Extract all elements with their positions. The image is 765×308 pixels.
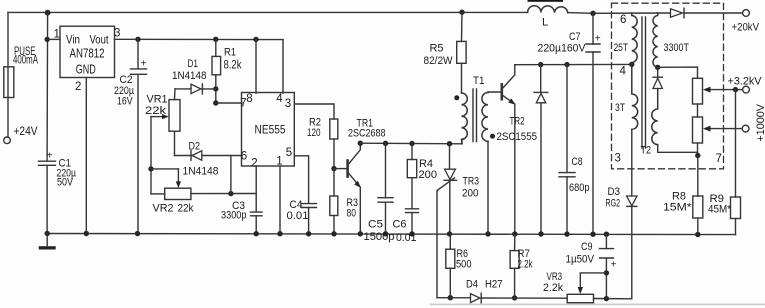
resistor R9 45M: [731, 197, 741, 219]
svg-text:VR2: VR2: [153, 203, 174, 215]
resistor R3 80: [333, 169, 335, 196]
node Vin branch: [45, 37, 50, 42]
svg-text:C6: C6: [393, 219, 407, 231]
resistor divider upper: [693, 78, 703, 104]
winding T1 secondary: [482, 93, 488, 142]
svg-text:+3.2kV: +3.2kV: [728, 76, 763, 88]
wire TR3 gate: [437, 178, 455, 298]
wire pin 2 stub: [255, 166, 257, 212]
node wiper junction: [148, 166, 153, 171]
resistor R7 2.2k: [514, 234, 516, 251]
svg-text:+: +: [595, 34, 601, 45]
svg-text:+24V: +24V: [14, 126, 38, 138]
wire T1 secondary top to TR2 base: [488, 91, 501, 94]
svg-text:2: 2: [75, 81, 81, 93]
svg-text:1N4148: 1N4148: [172, 70, 207, 82]
svg-text:5: 5: [286, 147, 292, 159]
node bus C9: [604, 232, 609, 237]
svg-text:8.2k: 8.2k: [224, 60, 242, 72]
transistor TR1 2SC2688: [334, 168, 347, 170]
node phase dot T1 primary: [454, 95, 459, 100]
wire tap arrow +3.2kV: [707, 89, 736, 91]
svg-text:+20kV: +20kV: [732, 22, 760, 34]
svg-text:45M*: 45M*: [708, 204, 732, 216]
diode D2 1N4148: [175, 155, 193, 157]
svg-text:L: L: [542, 17, 548, 29]
svg-text:8: 8: [246, 93, 252, 105]
svg-text:82/2W: 82/2W: [424, 55, 453, 67]
node VR3 right / C9 bottom: [604, 296, 609, 301]
svg-text:3: 3: [615, 153, 621, 165]
node bus TR2 emitter: [512, 231, 517, 236]
wire C2 column: [137, 39, 139, 233]
svg-text:Vout: Vout: [90, 35, 110, 47]
node R7 bottom: [512, 295, 517, 300]
wire feedback bottom left: [437, 297, 470, 299]
svg-text:C5: C5: [368, 219, 383, 231]
svg-text:D2: D2: [189, 141, 201, 153]
node terminal +3.2kV: [743, 86, 750, 93]
wire pin 4 stub: [282, 40, 284, 94]
svg-text:80: 80: [347, 208, 357, 220]
transformer T2 primary 25T: [632, 13, 637, 64]
winding T1 primary: [462, 93, 468, 144]
svg-text:6: 6: [620, 14, 626, 26]
wire pin 1 stub: [279, 166, 281, 234]
resistor R6 500: [449, 234, 451, 249]
svg-text:T2: T2: [641, 145, 652, 157]
wire T2 pin 3 down to D3: [631, 129, 633, 196]
node terminal +1000V: [742, 125, 749, 132]
svg-text:7: 7: [716, 153, 722, 165]
svg-text:TR2: TR2: [510, 116, 525, 128]
diode D4 H27: [471, 294, 481, 303]
diode HV internal: [657, 67, 659, 77]
resistor R8 15M: [693, 196, 703, 218]
dashed box flyback unit: [612, 3, 724, 169]
node R1 branch: [213, 37, 218, 42]
wire pin3 column to feedback: [631, 206, 633, 298]
ground symbol: [46, 234, 48, 246]
resistor R1: [215, 39, 217, 56]
node tap junction: [733, 87, 738, 92]
svg-text:TR3: TR3: [463, 176, 480, 188]
capacitor C7 220u160V: [592, 13, 594, 44]
svg-text:3300T: 3300T: [664, 42, 690, 54]
svg-text:R5: R5: [430, 43, 444, 55]
node phase dot T1 secondary: [490, 134, 495, 139]
svg-text:1µ50V: 1µ50V: [566, 254, 595, 266]
node pin7: [213, 100, 218, 105]
svg-text:H27: H27: [485, 279, 503, 291]
node junction R5 branch: [459, 10, 464, 15]
wire Vin: [47, 38, 60, 40]
svg-text:15M*: 15M*: [663, 202, 692, 214]
wire wiper to VR2 wiper: [151, 168, 178, 170]
node T2 pin 4: [629, 62, 634, 67]
svg-text:0.01: 0.01: [287, 210, 309, 222]
svg-text:1: 1: [54, 29, 60, 41]
svg-text:22k: 22k: [178, 203, 194, 215]
wire pin 5: [295, 156, 309, 203]
node pin8 branch: [253, 37, 258, 42]
wire pin 4 feed: [515, 63, 632, 65]
node bus C7: [590, 232, 595, 237]
resistor R4 200: [411, 144, 413, 160]
wire collector rail to T1: [360, 140, 462, 144]
node bus damper diode: [538, 231, 543, 236]
svg-text:C7: C7: [569, 31, 581, 43]
svg-text:22k: 22k: [145, 105, 166, 117]
capacitor C8 680p: [566, 65, 568, 173]
node C2 branch: [135, 37, 140, 42]
wire secondary tap to divider top: [658, 67, 698, 78]
transformer T2 secondary 3300T lower: [652, 89, 658, 145]
wire pin6 tee column: [230, 156, 232, 194]
node bus GND pin: [84, 231, 89, 236]
transformer T2 secondary 3300T upper: [653, 13, 658, 67]
wire VR1 wiper column: [150, 117, 152, 194]
wire pin 7: [216, 102, 242, 104]
node damper diode top: [538, 62, 543, 67]
node bus C4: [306, 231, 311, 236]
capacitor C4 0.01: [301, 204, 317, 208]
diode D3 RG2: [627, 196, 637, 206]
svg-text:NE555: NE555: [255, 123, 286, 137]
svg-text:+: +: [611, 260, 617, 271]
svg-text:C8: C8: [572, 156, 583, 168]
svg-text:D3: D3: [608, 186, 621, 198]
inductor L: [528, 6, 568, 13]
wire Vout rail: [115, 38, 284, 40]
core T2: [642, 17, 646, 148]
wire tap arrow +1000V: [707, 128, 742, 130]
svg-text:16V: 16V: [117, 96, 133, 108]
svg-text:2SC1555: 2SC1555: [497, 131, 538, 143]
wire ground bus: [46, 234, 736, 235]
potentiometer VR3 2.2k: [567, 294, 593, 302]
potentiometer VR1 22k: [174, 89, 177, 100]
svg-text:2.2k: 2.2k: [518, 259, 533, 271]
fuse PUSE 400mA: [4, 67, 14, 98]
wire divider bottom through R8: [697, 156, 699, 197]
node C8 top: [564, 62, 569, 67]
regulator U AN7812: [60, 26, 115, 77]
capacitor C5 1500p: [385, 143, 387, 197]
svg-text:680p: 680p: [569, 182, 590, 194]
wire R9 column: [735, 90, 737, 197]
node bus C2: [135, 231, 140, 236]
svg-text:C9: C9: [581, 241, 593, 253]
svg-text:200: 200: [419, 169, 438, 181]
svg-text:Vin: Vin: [66, 35, 80, 47]
wire to VR2 left end: [151, 193, 165, 195]
node VR2 right tee: [228, 191, 233, 196]
svg-text:1500p: 1500p: [364, 231, 395, 243]
node bus TR1 emitter: [358, 231, 363, 236]
svg-text:4: 4: [276, 93, 283, 105]
svg-text:50V: 50V: [57, 177, 73, 189]
node bus C1: [45, 231, 50, 236]
wire +24V input branch: [7, 12, 9, 137]
svg-text:GND: GND: [76, 63, 96, 77]
node bus C3: [254, 231, 259, 236]
svg-text:2SC2688: 2SC2688: [348, 128, 386, 140]
node bus T1 secondary: [485, 231, 490, 236]
wire pin 8 stub: [255, 39, 257, 93]
node C5 branch: [383, 141, 388, 146]
op-amp U2 NE555: [242, 93, 295, 167]
node bus C5: [383, 231, 388, 236]
svg-text:RG2: RG2: [606, 198, 621, 210]
wire wiper VR3: [580, 273, 606, 288]
svg-text:25T: 25T: [614, 42, 629, 54]
svg-text:3: 3: [114, 28, 120, 40]
svg-text:500: 500: [456, 259, 472, 271]
node R4 branch: [409, 141, 414, 146]
capacitor C9 1u50V: [605, 234, 607, 248]
wiper arrow VR2: [177, 169, 179, 183]
svg-text:+: +: [141, 59, 147, 70]
svg-text:120: 120: [307, 127, 321, 139]
scan streak bottom: [430, 304, 765, 306]
diode D1 1N4148: [175, 88, 191, 90]
resistor R5 82/2W: [461, 12, 464, 41]
svg-text:200: 200: [462, 188, 479, 200]
svg-text:2: 2: [251, 158, 257, 170]
node bus C8: [564, 231, 569, 236]
node TR1 base: [331, 166, 336, 171]
svg-text:D4: D4: [466, 279, 478, 291]
scan artifact above L: [528, 0, 564, 2]
wire GND pin 2 down to bus: [85, 78, 87, 234]
transformer T2 winding 3T: [632, 64, 638, 129]
svg-text:VR1: VR1: [147, 94, 168, 106]
node bus pin1: [277, 231, 282, 236]
node TR1 collector on rail: [358, 141, 363, 146]
svg-text:400mA: 400mA: [13, 55, 38, 67]
node C9 wiper junction: [604, 270, 609, 275]
potentiometer VR2 22k: [165, 188, 191, 199]
svg-text:1: 1: [276, 156, 282, 168]
thyristor TR3 200: [449, 144, 451, 169]
resistor R2 120: [330, 119, 338, 139]
node junction C7 branch: [590, 11, 595, 16]
wiper arrow VR1: [151, 116, 164, 118]
wire pin 3 output: [295, 104, 334, 119]
node terminal +20kV: [743, 10, 750, 17]
svg-text:0.01: 0.01: [396, 232, 417, 244]
diode D5 output to +20kV: [671, 9, 683, 17]
wire top rail between L and C7: [568, 12, 670, 15]
capacitor C1: [39, 161, 56, 165]
transistor TR2 2SC1555: [500, 84, 503, 99]
node bus TR3: [447, 231, 452, 236]
capacitor C6 0.01: [406, 209, 419, 213]
svg-text:T1: T1: [473, 75, 485, 87]
node junction top-left: [45, 10, 51, 16]
svg-text:AN7812: AN7812: [70, 47, 105, 61]
node bus C6: [409, 231, 414, 236]
svg-text:R1: R1: [224, 47, 236, 59]
wire input column to C1: [46, 13, 49, 161]
node divider bottom: [695, 153, 700, 158]
node terminal +24V: [4, 137, 11, 144]
wire +20kV output from diode to terminal: [684, 12, 743, 14]
svg-text:6: 6: [241, 151, 247, 163]
svg-text:3300p: 3300p: [221, 210, 247, 222]
node secondary tap: [655, 65, 660, 70]
wire secondary bottom to divider bottom: [658, 145, 698, 156]
svg-text:220µ160V: 220µ160V: [538, 43, 586, 55]
core T1: [473, 89, 477, 142]
svg-text:1N4148: 1N4148: [183, 166, 219, 178]
wire top rail left section: [8, 11, 528, 13]
svg-text:+1000V: +1000V: [755, 103, 765, 141]
node R6 bottom: [448, 295, 453, 300]
resistor divider lower: [693, 117, 703, 143]
node D1 cathode: [213, 86, 218, 91]
capacitor C3 3300p: [251, 212, 263, 216]
svg-text:2.2k: 2.2k: [543, 282, 563, 294]
wire C1 to ground bus: [46, 165, 48, 233]
node bus R3: [331, 231, 336, 236]
diode damper across TR2: [540, 65, 542, 93]
node TR3 branch: [447, 141, 452, 146]
svg-text:4: 4: [620, 66, 627, 78]
svg-text:3: 3: [285, 98, 291, 110]
svg-text:+: +: [47, 150, 53, 161]
svg-text:3T: 3T: [615, 102, 625, 114]
capacitor C2: [131, 69, 147, 74]
svg-text:D1: D1: [188, 58, 199, 70]
node bus R8: [695, 232, 700, 237]
